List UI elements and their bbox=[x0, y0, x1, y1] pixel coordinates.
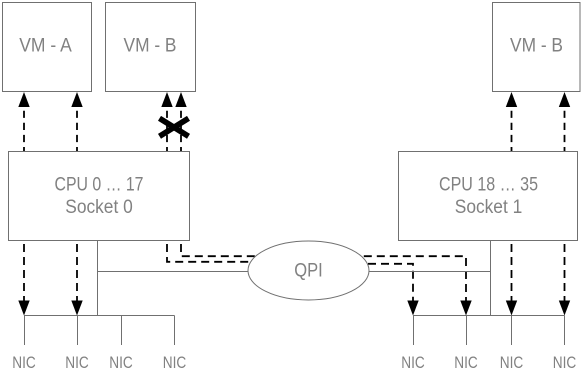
label NIC 8 bbox=[553, 353, 577, 372]
wire: dashed right VM-B path 2 upper (CPU1 to VM-B) bbox=[564, 107, 566, 152]
label NIC 4 bbox=[163, 353, 187, 372]
wire: right NIC bus bbox=[413, 315, 565, 317]
blocked-path X cross bbox=[160, 118, 189, 136]
wire: left NIC stub 1 bbox=[24, 316, 26, 346]
arrowhead down to NIC1 bbox=[18, 301, 29, 316]
svg-text:NIC: NIC bbox=[163, 353, 187, 372]
box VM-B left bbox=[106, 3, 196, 92]
svg-text:QPI: QPI bbox=[294, 260, 323, 282]
svg-text:CPU 0 … 17: CPU 0 … 17 bbox=[55, 174, 144, 196]
label NIC 7 bbox=[500, 353, 524, 372]
svg-text:NIC: NIC bbox=[65, 353, 89, 372]
arrowhead up into VM-A 1 bbox=[18, 92, 29, 107]
wire: right NIC stub 5 bbox=[413, 316, 415, 346]
wire: dashed VM-B blocked path 2 upper (CPU0 to VM-B) bbox=[180, 107, 182, 152]
svg-text:VM - B: VM - B bbox=[510, 35, 563, 57]
label NIC 1 bbox=[12, 353, 36, 372]
arrowhead up into VM-B right 1 bbox=[506, 92, 517, 107]
wire: solid CPU1 drop to right NIC bus bbox=[490, 241, 492, 316]
wire: dashed VM-A path 2 upper (CPU0 to VM-A) bbox=[76, 107, 78, 152]
wire: dashed right VM-B path 2 lower (CPU1 to NIC8) bbox=[564, 240, 566, 302]
label NIC 3 bbox=[109, 353, 133, 372]
arrowhead up into VM-B right 2 bbox=[559, 92, 570, 107]
box VM-A bbox=[3, 3, 92, 92]
svg-text:Socket 1: Socket 1 bbox=[455, 196, 523, 218]
arrowhead up into VM-B left 2 bbox=[175, 92, 186, 107]
wire: solid CPU0 drop to left NIC bus bbox=[97, 241, 99, 316]
wire: left NIC bus bbox=[24, 315, 175, 317]
wire: dashed VM-A path 2 lower (CPU0 to NIC2) bbox=[76, 240, 78, 302]
svg-text:VM - B: VM - B bbox=[124, 35, 177, 57]
arrowhead down to NIC5 bbox=[407, 301, 418, 316]
label NIC 6 bbox=[454, 353, 478, 372]
svg-text:NIC: NIC bbox=[109, 353, 133, 372]
wire: right NIC stub 6 bbox=[466, 316, 468, 346]
svg-text:NIC: NIC bbox=[454, 353, 478, 372]
box VM-B right bbox=[493, 3, 581, 92]
svg-text:NIC: NIC bbox=[401, 353, 425, 372]
arrowhead down to NIC2 bbox=[71, 301, 82, 316]
wire: dashed route CPU0 via QPI to right NIC5 bbox=[167, 240, 413, 302]
svg-text:NIC: NIC bbox=[500, 353, 524, 372]
label NIC 5 bbox=[401, 353, 425, 372]
arrowhead up into VM-B left 1 bbox=[161, 92, 172, 107]
wire: left NIC stub 4 bbox=[174, 316, 176, 346]
wire: dashed VM-B blocked path 1 upper (CPU0 to VM-B) bbox=[166, 107, 168, 152]
wire: dashed route CPU0 via QPI to right NIC6 bbox=[181, 240, 466, 302]
QPI ellipse bbox=[248, 241, 369, 300]
wire: dashed right VM-B path 1 lower (CPU1 to NIC7) bbox=[511, 240, 513, 302]
box CPU 18 Socket 1 bbox=[399, 152, 578, 241]
wire: dashed VM-A path 1 lower (CPU0 to NIC1) bbox=[23, 240, 25, 302]
wire: left NIC stub 2 bbox=[77, 316, 79, 346]
svg-text:Socket 0: Socket 0 bbox=[65, 196, 133, 218]
wire: left NIC stub 3 bbox=[121, 316, 123, 346]
svg-text:NIC: NIC bbox=[12, 353, 36, 372]
svg-text:NIC: NIC bbox=[553, 353, 577, 372]
arrowhead down to NIC8 bbox=[559, 301, 570, 316]
wire: solid QPI horizontal link bbox=[98, 271, 491, 273]
arrowhead down to NIC6 bbox=[460, 301, 471, 316]
label NIC 2 bbox=[65, 353, 89, 372]
arrowhead up into VM-A 2 bbox=[71, 92, 82, 107]
arrowhead down to NIC7 bbox=[506, 301, 517, 316]
box CPU 0 Socket 0 bbox=[9, 152, 190, 241]
wire: right NIC stub 8 bbox=[564, 316, 566, 346]
svg-text:VM - A: VM - A bbox=[19, 35, 72, 57]
svg-text:CPU 18 … 35: CPU 18 … 35 bbox=[439, 174, 538, 196]
wire: dashed VM-A path 1 upper (CPU0 to VM-A) bbox=[23, 107, 25, 152]
wire: dashed right VM-B path 1 upper (CPU1 to VM-B) bbox=[511, 107, 513, 152]
wire: right NIC stub 7 bbox=[511, 316, 513, 346]
